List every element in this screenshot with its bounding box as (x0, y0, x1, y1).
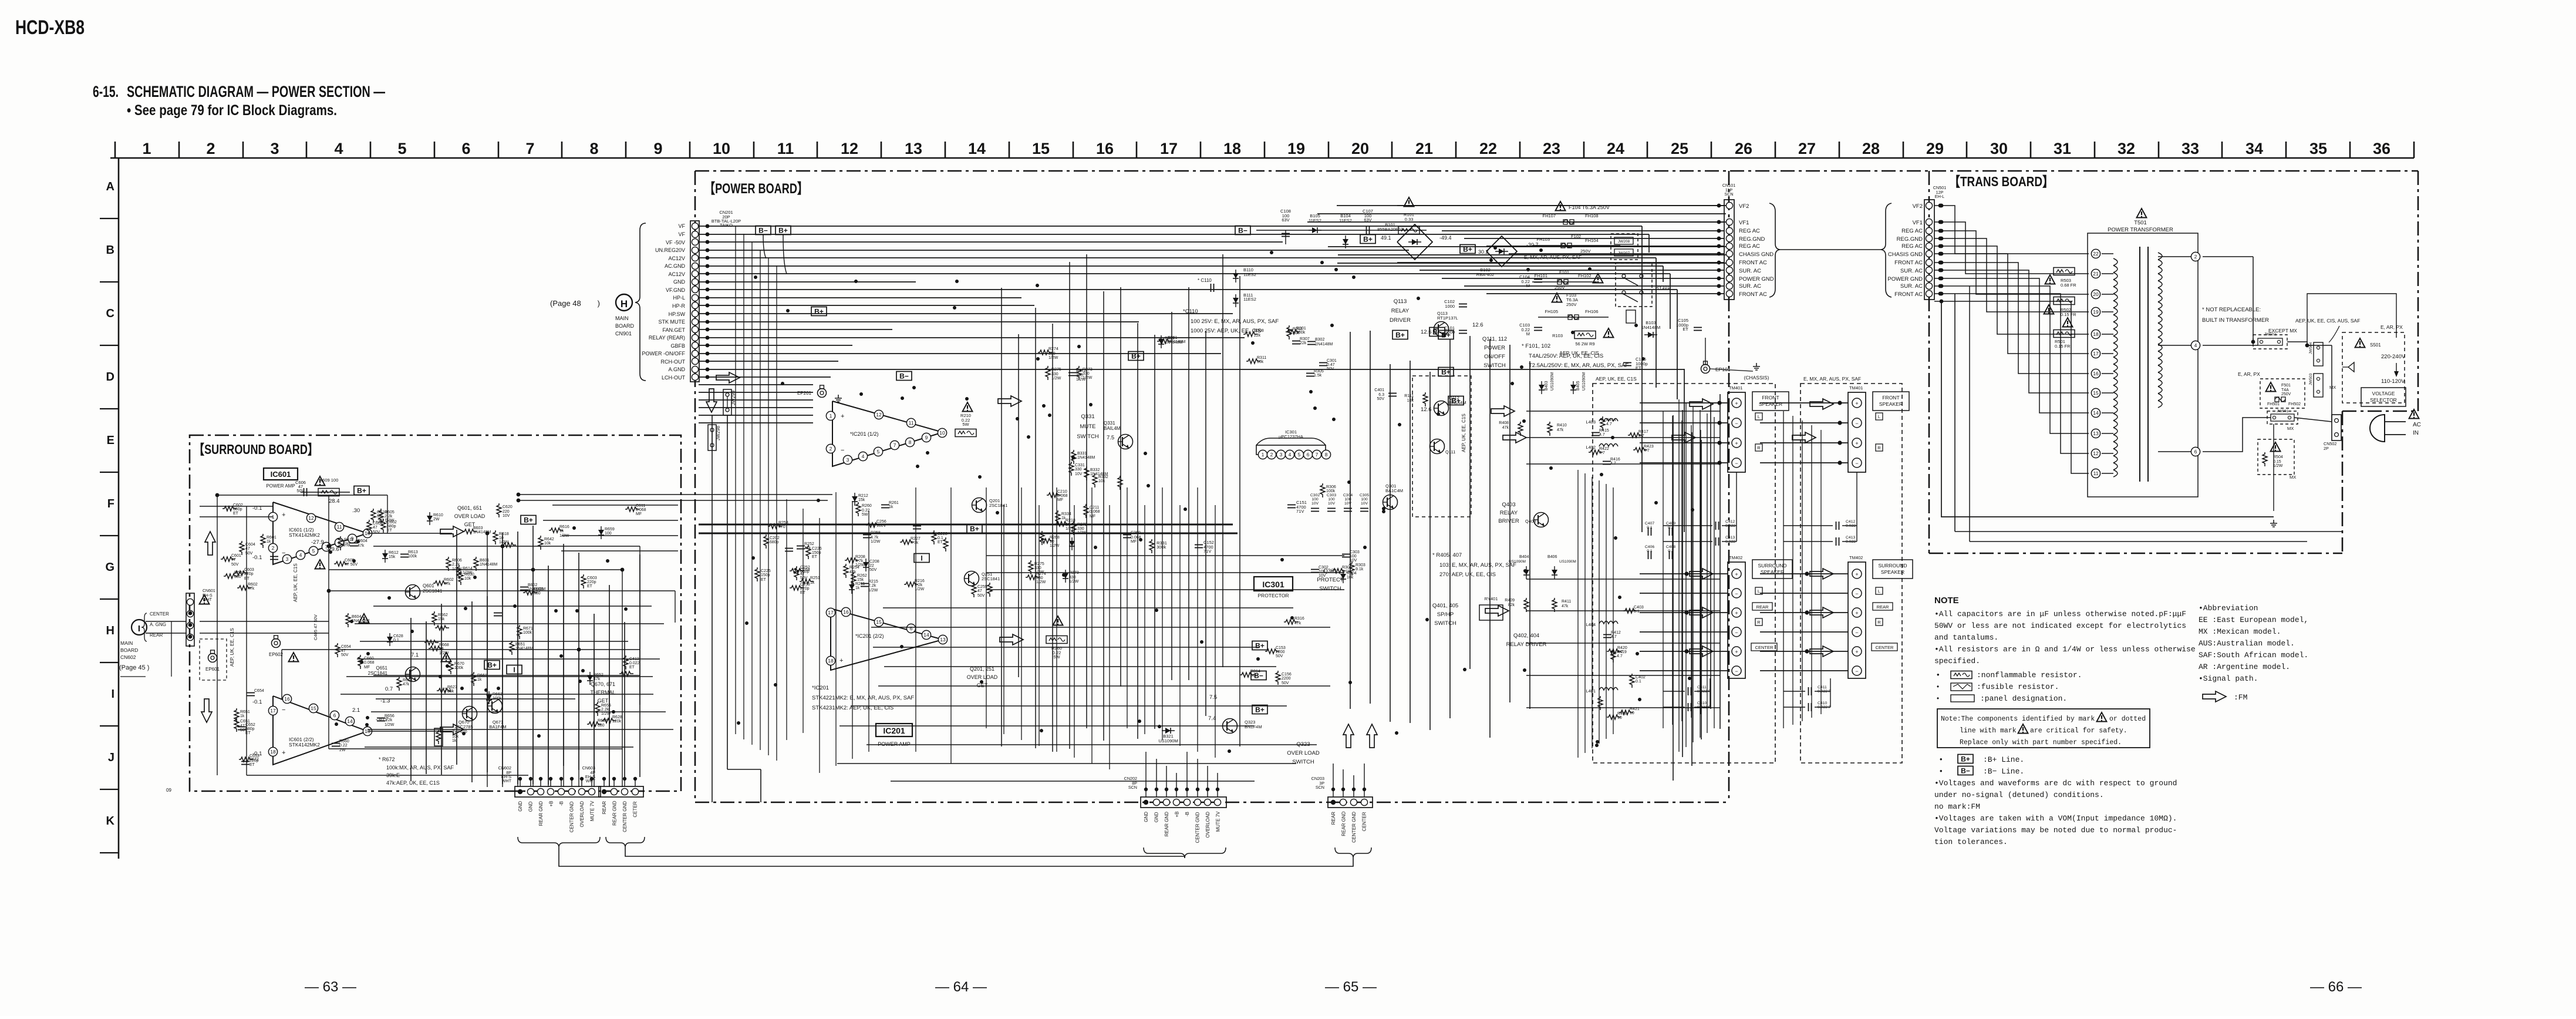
svg-text:BOARD: BOARD (615, 323, 635, 329)
svg-text:855BA20F01: 855BA20F01 (1377, 227, 1403, 232)
op-amp IC201 1/2 (832, 401, 943, 466)
svg-text:R254: R254 (849, 566, 859, 570)
svg-text:J: J (108, 751, 114, 764)
svg-text:R671: R671 (523, 627, 533, 631)
svg-text:0.1: 0.1 (393, 638, 399, 643)
svg-text:Q331: Q331 (1081, 413, 1094, 420)
svg-text:B+: B+ (1131, 352, 1141, 361)
svg-text:D: D (106, 371, 114, 384)
svg-text:C255: C255 (977, 585, 987, 589)
svg-text:0.068: 0.068 (1090, 510, 1100, 514)
svg-text:JW298: JW298 (716, 426, 721, 440)
svg-text:ET: ET (812, 555, 818, 559)
svg-text:(CHASSIS): (CHASSIS) (1744, 375, 1769, 381)
svg-text:— 65 —: — 65 — (1325, 979, 1377, 995)
svg-text:•Voltages are taken with a VOM: •Voltages are taken with a VOM(Input imp… (1934, 814, 2177, 823)
svg-text:B332: B332 (1090, 468, 1100, 472)
svg-text:20: 20 (2093, 291, 2099, 297)
svg-text:R412: R412 (1611, 631, 1621, 635)
svg-text:MUTE 7V: MUTE 7V (590, 801, 595, 821)
svg-text:SWITCH: SWITCH (1483, 362, 1506, 369)
svg-text:6: 6 (1307, 452, 1310, 458)
brace CN202 (1144, 848, 1226, 858)
svg-text:CETER: CETER (633, 801, 638, 817)
coils L401-L404 (1599, 419, 1618, 422)
svg-text:R306: R306 (1326, 485, 1336, 489)
svg-text::B+ Line.: :B+ Line. (1983, 755, 2024, 764)
connector CN601 (186, 593, 194, 646)
svg-text:330: 330 (1077, 527, 1084, 531)
relay RY401 (1479, 605, 1503, 620)
svg-text:MF: MF (364, 665, 370, 670)
svg-text:R303: R303 (1356, 563, 1365, 567)
svg-text:C407: C407 (1645, 522, 1654, 526)
svg-text:1: 1 (142, 140, 151, 157)
svg-text:7: 7 (893, 442, 896, 448)
svg-text:B405: B405 (1576, 381, 1580, 391)
svg-text:24: 24 (1607, 140, 1624, 157)
capacitor C152 (1195, 545, 1203, 548)
svg-text:−: − (282, 707, 285, 714)
svg-text:680: 680 (598, 724, 605, 728)
svg-text:C654: C654 (341, 645, 351, 649)
svg-text::B− Line.: :B− Line. (1983, 767, 2024, 776)
surround board outline (190, 435, 681, 791)
svg-text:•Abbreviation: •Abbreviation (2199, 604, 2258, 613)
svg-text:10: 10 (1050, 540, 1054, 544)
svg-text:100k: 100k (1326, 489, 1336, 493)
svg-text:AEP, UK, EE, C1S: AEP, UK, EE, C1S (1596, 376, 1637, 382)
CN501 pin labels (1887, 203, 1923, 298)
svg-text:47k: 47k (804, 546, 811, 550)
svg-text:250V: 250V (1580, 248, 1591, 254)
surround board left small parts lower (234, 689, 264, 767)
svg-text:+: + (1855, 610, 1858, 616)
svg-text:L: L (1758, 588, 1760, 594)
resistor pairs lower (1598, 606, 1646, 720)
svg-text:4.7: 4.7 (1606, 422, 1612, 426)
svg-text:220p: 220p (244, 572, 254, 576)
capacitors C410 C411 AEP (1688, 687, 1691, 695)
svg-text:4.7: 4.7 (1599, 433, 1605, 437)
svg-text:R618: R618 (499, 532, 509, 536)
svg-text:14: 14 (2093, 410, 2099, 416)
svg-text:22k: 22k (1254, 334, 1261, 338)
svg-text:VF: VF (678, 231, 685, 237)
svg-text:CENTER GND: CENTER GND (569, 801, 575, 832)
svg-text:16: 16 (1096, 140, 1114, 157)
svg-text:C408: C408 (1666, 545, 1675, 549)
svg-text:26: 26 (1735, 140, 1752, 157)
svg-text:12: 12 (308, 515, 314, 521)
svg-text:2W: 2W (433, 517, 440, 522)
svg-text:5: 5 (1298, 452, 1301, 458)
svg-text:680p: 680p (800, 570, 810, 574)
svg-text:ET: ET (244, 577, 250, 581)
svg-text:B−: B− (1238, 227, 1247, 235)
surround board left small parts (221, 503, 278, 591)
svg-text:R628: R628 (612, 715, 622, 719)
arrows TM401 EMX (1810, 399, 1833, 409)
trans board right border upper (2417, 171, 2419, 411)
protector surroundings (1240, 617, 1304, 685)
grid ruler column ticks and numbers (115, 140, 2414, 158)
transformer left winding (2102, 254, 2118, 477)
svg-text:VF: VF (678, 223, 685, 229)
B+ box surround (354, 486, 369, 495)
wire bottom loop 2 (625, 848, 1185, 858)
svg-text:R417: R417 (1638, 430, 1648, 434)
svg-text:TM401: TM401 (1729, 385, 1742, 391)
svg-text:−: − (1735, 460, 1738, 466)
wire CN101-CN501 bundle (1780, 249, 1882, 250)
svg-text:1N4148M: 1N4148M (480, 563, 498, 567)
svg-text:R610: R610 (433, 513, 443, 517)
cluster R273 area (1038, 347, 1093, 382)
svg-text:Q403: Q403 (1525, 519, 1536, 524)
svg-text:H: H (621, 298, 628, 310)
svg-text:15: 15 (876, 619, 882, 625)
svg-text:0.022: 0.022 (629, 661, 640, 665)
svg-text:POWER GND: POWER GND (1739, 276, 1774, 283)
diode B103 (1644, 332, 1657, 338)
capacitor C401 (1388, 394, 1397, 396)
svg-text:2: 2 (272, 545, 275, 551)
svg-text:250V: 250V (1566, 302, 1577, 307)
svg-text:49.1: 49.1 (1381, 235, 1391, 241)
svg-text:19: 19 (2093, 309, 2099, 315)
capacitors C101 C102 (1459, 304, 1467, 307)
svg-text:11: 11 (777, 140, 794, 157)
svg-text:AC.GND: AC.GND (665, 263, 686, 269)
arrows TM402 EMX (1810, 569, 1833, 579)
wire CN601 left stubs (120, 611, 192, 677)
svg-text::FM: :FM (2234, 693, 2247, 702)
svg-text:+: + (282, 749, 285, 756)
svg-text:8: 8 (589, 140, 598, 157)
wires TM402 EMX (1760, 571, 1848, 671)
svg-text:R653: R653 (598, 719, 608, 723)
surround board component field lower (332, 611, 640, 752)
svg-text:B604: B604 (352, 615, 361, 619)
svg-text:MUTE 7V: MUTE 7V (1216, 811, 1221, 832)
abbreviation FM arrow (2203, 691, 2226, 702)
svg-text:BA1F4M: BA1F4M (489, 724, 506, 729)
svg-text:* F101, 102: * F101, 102 (1522, 343, 1550, 349)
svg-text:1000: 1000 (1445, 304, 1455, 309)
warning R210 (963, 402, 973, 412)
svg-text:100: 100 (1328, 497, 1335, 502)
svg-text:5W: 5W (962, 422, 969, 427)
svg-text:C603: C603 (244, 568, 254, 572)
svg-text:I: I (921, 554, 922, 563)
svg-text:-30.7: -30.7 (376, 717, 389, 723)
svg-text:R262: R262 (857, 574, 867, 578)
svg-text:15: 15 (1032, 140, 1050, 157)
svg-text:Voltage variations may be note: Voltage variations may be noted due to n… (1934, 826, 2177, 835)
label front speaker AEP (1752, 392, 1789, 411)
svg-text:-0.1: -0.1 (252, 751, 262, 757)
capacitor C151 (1287, 505, 1296, 508)
svg-text:REAR GND: REAR GND (1164, 812, 1169, 836)
svg-text:19: 19 (1287, 140, 1305, 157)
svg-text:100k: 100k (408, 554, 417, 559)
svg-text:SCN: SCN (1128, 785, 1137, 790)
trans board left border (1928, 171, 1930, 553)
trans board bottom border (1929, 553, 2342, 554)
screw EP101 (1701, 361, 1710, 374)
svg-text:SCN: SCN (1724, 191, 1733, 197)
thermal resistor THP670 (434, 728, 443, 746)
svg-text:0.33: 0.33 (1405, 217, 1414, 222)
svg-text:−: − (1855, 421, 1858, 426)
transformer primary pins (2091, 249, 2100, 477)
svg-text:-27.9: -27.9 (311, 539, 324, 546)
wire bus verticals right side (1642, 226, 1684, 532)
power board component field A (755, 521, 822, 595)
svg-text:TM402: TM402 (1849, 555, 1863, 560)
power board bottom border (695, 802, 1729, 803)
svg-text:C302: C302 (1319, 566, 1329, 570)
svg-text:220p: 220p (587, 580, 596, 584)
svg-text:100k: 100k (523, 631, 532, 635)
svg-text:BA1C4M: BA1C4M (1385, 488, 1403, 493)
svg-text:0.1: 0.1 (938, 536, 943, 540)
node H (page 48) (616, 294, 632, 311)
svg-text:50V: 50V (296, 488, 304, 493)
svg-text:C410: C410 (1697, 701, 1707, 705)
svg-text:under no-signal (detuned) cond: under no-signal (detuned) conditions. (1934, 791, 2104, 799)
transistor Q601 (406, 585, 420, 600)
svg-text:15k: 15k (858, 498, 865, 502)
svg-text:0.1: 0.1 (1634, 610, 1640, 614)
node I main board (132, 620, 147, 635)
junction dots scatter (329, 246, 1694, 753)
svg-text:SWITCH: SWITCH (1077, 433, 1099, 440)
svg-text:+: + (282, 512, 285, 519)
svg-text:FRONT: FRONT (1762, 395, 1779, 401)
svg-text:A.GND: A.GND (668, 366, 685, 372)
signal arrow surround L (440, 526, 464, 537)
svg-text:16: 16 (843, 609, 849, 615)
power mid verticals (787, 487, 1215, 773)
svg-text:RY401: RY401 (1485, 596, 1498, 601)
svg-text:12.6: 12.6 (1421, 329, 1432, 335)
svg-text:5: 5 (877, 449, 880, 455)
svg-text:T4AL/250V: AEP, UK, EE, CIS: T4AL/250V: AEP, UK, EE, CIS (1529, 353, 1603, 359)
svg-text:B−: B− (1961, 767, 1970, 775)
svg-text:•Voltages and waveforms are dc: •Voltages and waveforms are dc with resp… (1934, 779, 2177, 788)
note safety box (1937, 709, 2150, 748)
svg-text:47: 47 (240, 724, 245, 728)
power lower horizontal wires (837, 556, 1344, 781)
transistor Q651 (406, 667, 420, 682)
connector CN202 (1141, 797, 1226, 808)
svg-text:0.22: 0.22 (339, 744, 348, 748)
svg-text:C409: C409 (1666, 522, 1675, 526)
svg-text:L: L (1878, 414, 1880, 419)
svg-text:LCH-OUT: LCH-OUT (662, 375, 686, 381)
svg-text:10V: 10V (503, 514, 510, 518)
svg-text:0.7: 0.7 (385, 686, 393, 692)
svg-text:R422: R422 (1599, 447, 1609, 451)
svg-text:MF: MF (636, 512, 642, 516)
svg-text:15k: 15k (857, 578, 864, 582)
power right vertical wires (1578, 399, 1714, 758)
B+ boxes power (811, 307, 827, 316)
svg-text:Q601: Q601 (423, 583, 434, 588)
svg-text:H: H (106, 624, 114, 637)
svg-text:0.068: 0.068 (364, 661, 375, 665)
svg-text:FH103: FH103 (1536, 237, 1550, 242)
svg-text:IC601: IC601 (271, 470, 291, 479)
svg-text:3: 3 (1280, 452, 1283, 458)
svg-text:VF2: VF2 (1739, 203, 1749, 210)
connector CN501 (1924, 200, 1934, 300)
svg-text:15: 15 (311, 705, 316, 711)
svg-text:4.7k: 4.7k (911, 541, 919, 545)
svg-text:tion tolerances.: tion tolerances. (1934, 838, 2008, 846)
svg-text:100: 100 (1311, 497, 1319, 502)
selector plug symbol (2348, 362, 2354, 372)
svg-text:* C110: * C110 (1198, 278, 1212, 283)
svg-text:ET: ET (1683, 327, 1688, 332)
svg-text:50V: 50V (1276, 654, 1283, 658)
svg-text:-49.4: -49.4 (1439, 235, 1452, 241)
svg-text:HCD-XB8: HCD-XB8 (15, 16, 85, 39)
svg-text:27: 27 (1798, 140, 1816, 157)
svg-text:SUR. AC: SUR. AC (1900, 268, 1923, 274)
svg-text:MAIN: MAIN (615, 315, 629, 321)
svg-text:330: 330 (1048, 352, 1056, 356)
svg-text:or dotted: or dotted (2109, 715, 2146, 723)
svg-text:R605: R605 (385, 510, 395, 514)
svg-text:IC301: IC301 (1262, 580, 1284, 589)
svg-text:CENTER: CENTER (1362, 812, 1367, 831)
svg-text:FH501: FH501 (2267, 402, 2280, 406)
svg-text:18: 18 (2093, 331, 2099, 337)
svg-text:Q651: Q651 (376, 665, 387, 671)
svg-text:AC: AC (2413, 422, 2421, 428)
svg-text:680p: 680p (770, 540, 779, 544)
svg-text:R659: R659 (605, 527, 615, 532)
jumper JW504 (2314, 342, 2323, 366)
fuse F104 row (1556, 201, 1566, 211)
resistor R103 (1574, 331, 1596, 339)
svg-text:4.7: 4.7 (1644, 449, 1650, 453)
svg-text:10: 10 (1617, 716, 1622, 720)
svg-text:4: 4 (862, 453, 865, 459)
wires left risers AEP (1663, 411, 1701, 728)
diode column B403 B405 (1539, 381, 1545, 394)
svg-text:STK4221MK2: E, MX, AR, AUS, PX: STK4221MK2: E, MX, AR, AUS, PX, SAF (812, 695, 914, 701)
surround B+ boxes (521, 516, 536, 524)
svg-text:L402: L402 (1586, 445, 1596, 450)
svg-text:47 50V: 47 50V (345, 563, 358, 567)
svg-text:POWER AMP: POWER AMP (266, 483, 295, 489)
svg-text::panel designation.: :panel designation. (1980, 694, 2067, 703)
svg-text:RBA-402: RBA-402 (1476, 272, 1494, 277)
label surround speaker EMX (1873, 560, 1913, 579)
svg-text:R305: R305 (1314, 369, 1324, 374)
svg-text:1/2W: 1/2W (385, 723, 395, 727)
svg-text:EE :East European model,: EE :East European model, (2199, 616, 2308, 624)
svg-text:1: 1 (830, 413, 832, 419)
svg-text:NOTE: NOTE (1934, 596, 1959, 606)
svg-text:2.2k: 2.2k (868, 584, 876, 588)
warning R260 (1053, 616, 1063, 625)
svg-text:C412: C412 (1725, 520, 1735, 524)
transistor Q331 (1118, 435, 1133, 449)
svg-text:2200: 2200 (1282, 677, 1291, 681)
svg-text:•: • (1937, 670, 1940, 679)
svg-text:50V: 50V (231, 563, 239, 567)
svg-text:330: 330 (1069, 576, 1076, 580)
svg-text:R111: R111 (1404, 394, 1414, 398)
svg-text:3: 3 (847, 457, 849, 463)
svg-text:-0.1: -0.1 (252, 699, 262, 705)
svg-text:17: 17 (2093, 351, 2099, 357)
op-amp IC601 1/2 (273, 502, 367, 564)
transistor Q113 (1434, 322, 1449, 337)
svg-text:47k: 47k (403, 682, 410, 687)
svg-text:B−: B− (899, 372, 909, 381)
connector CN602 (515, 786, 601, 797)
svg-text:47: 47 (231, 558, 236, 562)
power mid vertical bundle dense (1002, 254, 1720, 781)
svg-text:14: 14 (968, 140, 986, 157)
svg-text:R252: R252 (804, 542, 814, 546)
svg-text:and tantalums.: and tantalums. (1934, 633, 1998, 642)
jumpers JW207 JW208 (1611, 234, 1638, 260)
wire bottom loop 1 (559, 848, 1353, 866)
svg-text:R660: R660 (339, 739, 349, 744)
transistor Q323 (1223, 719, 1238, 734)
svg-text:1/2W: 1/2W (1036, 580, 1046, 584)
svg-text:BA1A4M: BA1A4M (1449, 400, 1466, 405)
connector CN502 (2332, 415, 2341, 440)
svg-text:B+: B+ (357, 487, 366, 495)
svg-text:10V: 10V (1319, 574, 1326, 578)
svg-text:31: 31 (2054, 140, 2071, 157)
signal arrows above CN203 (1343, 724, 1354, 748)
transformer core (2139, 247, 2140, 482)
connector CN203 (1328, 797, 1373, 808)
svg-text:330: 330 (1076, 374, 1083, 378)
surround feedback C606 R609 (301, 492, 350, 493)
svg-text:21: 21 (1415, 140, 1433, 157)
svg-text:50V: 50V (1377, 397, 1385, 401)
svg-text:-B: -B (1185, 812, 1190, 816)
svg-text:7.1: 7.1 (444, 687, 451, 694)
svg-text:FRONT AC: FRONT AC (1894, 260, 1923, 266)
resistor R111 (1423, 392, 1428, 406)
svg-text:470: 470 (778, 525, 785, 529)
svg-text:【TRANS BOARD】: 【TRANS BOARD】 (1949, 174, 2054, 189)
svg-text:Q402, 404: Q402, 404 (1513, 633, 1539, 639)
svg-text:STK MUTE: STK MUTE (658, 319, 685, 325)
svg-text:B−: B− (758, 227, 768, 235)
bridge rectifier B101 (1397, 224, 1432, 260)
svg-text:330: 330 (1075, 468, 1082, 472)
svg-text:CENTER: CENTER (150, 611, 169, 617)
svg-text:5W: 5W (862, 513, 868, 517)
svg-text:C304: C304 (1343, 493, 1353, 497)
svg-text:REAR GND: REAR GND (1341, 811, 1347, 836)
svg-text:17: 17 (828, 610, 834, 616)
svg-text:11ES2: 11ES2 (1243, 297, 1256, 302)
svg-text:GET: GET (598, 698, 609, 704)
